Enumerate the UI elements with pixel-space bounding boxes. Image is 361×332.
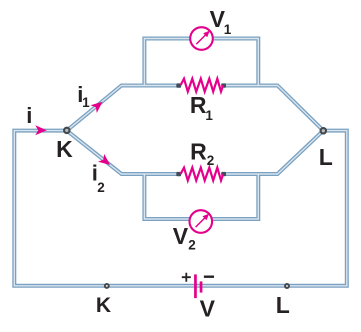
svg-text:2: 2 bbox=[97, 180, 105, 195]
svg-text:2: 2 bbox=[188, 237, 196, 252]
svg-text:R: R bbox=[190, 139, 207, 165]
svg-text:i: i bbox=[26, 103, 32, 128]
svg-text:R: R bbox=[190, 92, 207, 118]
svg-text:1: 1 bbox=[205, 108, 213, 123]
svg-text:2: 2 bbox=[207, 153, 215, 168]
svg-text:K: K bbox=[96, 294, 111, 317]
svg-text:K: K bbox=[56, 136, 73, 162]
svg-text:L: L bbox=[319, 144, 333, 170]
svg-text:V: V bbox=[200, 295, 216, 321]
svg-text:V: V bbox=[173, 223, 189, 249]
svg-text:L: L bbox=[276, 292, 290, 318]
svg-text:1: 1 bbox=[82, 95, 90, 110]
svg-text:1: 1 bbox=[224, 22, 232, 37]
